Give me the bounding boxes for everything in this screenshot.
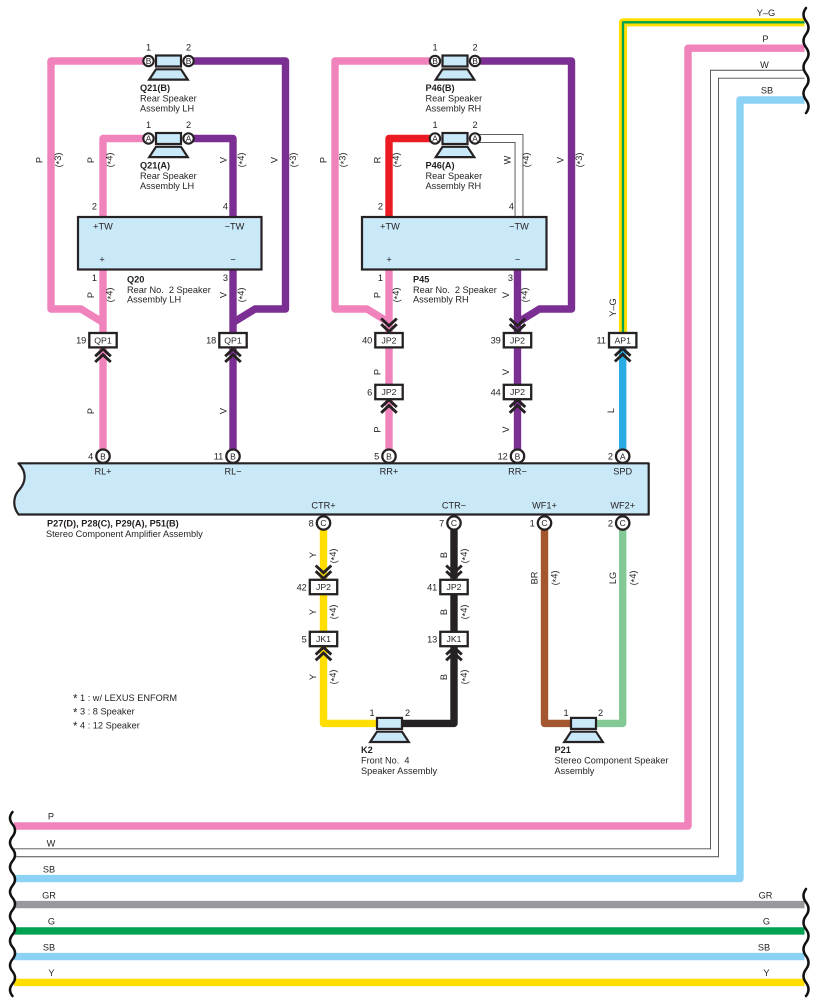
svg-text:Rear Speaker: Rear Speaker (140, 171, 197, 181)
svg-text:P45: P45 (413, 274, 429, 284)
svg-text:44: 44 (491, 387, 501, 397)
svg-text:B: B (472, 56, 478, 66)
svg-text:7: 7 (439, 519, 444, 529)
svg-text:Y: Y (48, 968, 54, 978)
wire L (blue) AP1 11 to amp SPD (619, 347, 626, 452)
terminal 4 (B) amp RL+ (96, 450, 109, 463)
svg-text:(*3): (*3) (53, 153, 65, 168)
wire G (green) bottom run (14, 927, 805, 934)
svg-text:P27(D), P28(C), P29(A), P51(B): P27(D), P28(C), P29(A), P51(B) (47, 519, 179, 529)
tweeter box P45 Rear No.2 Speaker Assembly RH (362, 217, 547, 270)
svg-text:RR+: RR+ (380, 466, 399, 476)
svg-text:QP1: QP1 (224, 335, 242, 345)
svg-text:1: 1 (146, 42, 151, 52)
svg-text:Speaker Assembly: Speaker Assembly (361, 766, 437, 776)
svg-text:P: P (762, 34, 768, 44)
svg-text:Q21(A): Q21(A) (140, 161, 170, 171)
wire Y-G (yellow-green) from top right to AP1 11 (623, 22, 805, 334)
speaker K2 Front No.4 Speaker Assembly (377, 718, 402, 729)
svg-text:Front No. 4: Front No. 4 (361, 756, 410, 766)
svg-text:A: A (620, 451, 626, 461)
svg-text:SB: SB (43, 864, 55, 874)
svg-text:SB: SB (43, 942, 55, 952)
svg-text:WF1+: WF1+ (532, 501, 557, 511)
svg-text:(*4): (*4) (521, 153, 533, 168)
connector 11 AP1 (609, 333, 636, 347)
svg-text:13: 13 (427, 634, 437, 644)
svg-text:Stereo Component Amplifier Ass: Stereo Component Amplifier Assembly (46, 529, 203, 539)
amplifier box P27(D)/P28(C)/P29(A)/P51(B) Stereo Component Amplifier Assembly (14, 463, 648, 514)
svg-text:G: G (763, 917, 770, 927)
svg-text:JP2: JP2 (382, 387, 397, 397)
wire GR (gray) bottom run (14, 901, 805, 908)
break mark top right (804, 8, 809, 113)
svg-text:1: 1 (146, 120, 151, 130)
svg-text:−TW: −TW (509, 222, 529, 232)
svg-text:Assembly RH: Assembly RH (426, 103, 482, 113)
svg-text:18: 18 (206, 336, 216, 346)
svg-text:B: B (439, 609, 449, 615)
svg-text:P46(B): P46(B) (426, 83, 455, 93)
terminal 8 (C) amp CTR+ (317, 516, 330, 529)
wire B (black) amp CTR- to JP2 41 / JK1 13 to K2 pin2 (402, 529, 454, 724)
speaker P46(A) Rear Speaker Assembly RH (443, 133, 468, 144)
svg-text:4: 4 (223, 202, 228, 212)
svg-text:(*4): (*4) (520, 288, 532, 303)
wire V (purple) P45 pin3 to JP2 39/44 to amp RR- (514, 267, 521, 451)
wire P (pink) long run top right to bottom left (14, 48, 805, 826)
speaker P46(B) Rear Speaker Assembly RH (443, 56, 468, 67)
svg-text:JK1: JK1 (316, 634, 331, 644)
svg-text:C: C (320, 518, 326, 528)
svg-text:(*4): (*4) (628, 571, 640, 586)
svg-text:6: 6 (367, 387, 372, 397)
wire LG (light green) amp WF2+ to P21 pin2 (597, 529, 623, 724)
svg-text:1: 1 (432, 120, 437, 130)
speaker Q21(B) Rear Speaker Assembly LH (156, 56, 181, 67)
svg-text:Y: Y (763, 968, 769, 978)
svg-text:+: + (386, 255, 391, 265)
svg-text:Rear No. 2 Speaker: Rear No. 2 Speaker (413, 285, 497, 295)
terminal 11 (B) amp RL- (226, 450, 239, 463)
svg-text:Rear Speaker: Rear Speaker (140, 94, 197, 104)
svg-text:JP2: JP2 (447, 582, 462, 592)
svg-text:Y: Y (308, 609, 318, 615)
svg-text:3: 3 (223, 273, 228, 283)
wire W (white) long run top right to bottom left (14, 74, 805, 853)
wire BR (brown) amp WF1+ to P21 pin1 (545, 529, 571, 724)
svg-text:2: 2 (608, 452, 613, 462)
svg-text:CTR−: CTR− (442, 501, 466, 511)
svg-text:W: W (502, 155, 512, 164)
svg-text:Rear Speaker: Rear Speaker (426, 94, 483, 104)
svg-text:1: 1 (369, 708, 374, 718)
connector 18 QP1 (219, 333, 246, 347)
svg-text:Y: Y (308, 552, 318, 558)
svg-text:JK1: JK1 (447, 634, 462, 644)
svg-text:V: V (501, 426, 511, 433)
svg-text:B: B (100, 451, 106, 461)
speaker Q21(A) Rear Speaker Assembly LH (156, 133, 181, 144)
svg-text:5: 5 (374, 452, 379, 462)
svg-text:V: V (218, 156, 228, 163)
svg-text:AP1: AP1 (614, 335, 631, 345)
svg-text:(*4): (*4) (105, 288, 117, 303)
svg-text:B: B (515, 451, 521, 461)
wire W (white) P46(A) pin2 to P45 pin4 (478, 139, 519, 221)
terminal 5 (B) amp RR+ (382, 450, 395, 463)
svg-text:Q20: Q20 (127, 274, 144, 284)
terminal 1 (C) amp WF1+ (538, 516, 551, 529)
terminal 2 (A) amp SPD (616, 450, 629, 463)
break mark bottom left (10, 812, 15, 996)
svg-text:(*4): (*4) (391, 153, 403, 168)
wire P (pink) Q21(A) pin1 / Q20 pin2 / pin1 to QP1 19 to amp RL+ (103, 139, 145, 452)
wire SB (sky blue) bottom run (14, 953, 805, 960)
svg-text:A: A (472, 134, 478, 144)
svg-text:4: 4 (88, 452, 93, 462)
svg-text:Assembly LH: Assembly LH (140, 181, 194, 191)
svg-text:P: P (372, 292, 382, 298)
terminal 2 (C) amp WF2+ (616, 516, 629, 529)
svg-text:A: A (186, 134, 192, 144)
svg-text:P: P (86, 292, 96, 298)
connector 42 JP2 (310, 580, 337, 594)
svg-text:19: 19 (76, 336, 86, 346)
svg-text:WF2+: WF2+ (610, 501, 635, 511)
svg-text:Assembly RH: Assembly RH (413, 295, 469, 305)
svg-text:4: 4 (509, 202, 514, 212)
svg-text:8: 8 (309, 519, 314, 529)
svg-text:B: B (432, 56, 438, 66)
connector 5 JK1 (310, 632, 337, 646)
svg-text:−: − (515, 255, 520, 265)
svg-text:V: V (501, 368, 511, 375)
svg-text:(*4): (*4) (105, 153, 117, 168)
svg-text:G: G (48, 917, 55, 927)
svg-text:Y: Y (308, 674, 318, 680)
svg-text:42: 42 (297, 582, 307, 592)
svg-text:A: A (432, 134, 438, 144)
svg-text:(*4): (*4) (328, 549, 340, 564)
wire Y (yellow) bottom run (14, 979, 805, 986)
svg-text:V: V (218, 407, 228, 414)
svg-text:2: 2 (608, 519, 613, 529)
wire V (purple) Q21(B) pin2 to junction, *3 (192, 61, 286, 323)
svg-text:(*4): (*4) (236, 288, 248, 303)
svg-text:P46(A): P46(A) (426, 161, 455, 171)
svg-text:2: 2 (472, 42, 477, 52)
svg-text:2: 2 (598, 708, 603, 718)
svg-text:2: 2 (186, 42, 191, 52)
svg-text:A: A (146, 134, 152, 144)
svg-text:Assembly LH: Assembly LH (127, 295, 181, 305)
svg-text:(*3): (*3) (288, 153, 300, 168)
svg-text:(*3): (*3) (338, 153, 350, 168)
svg-text:(*4): (*4) (550, 571, 562, 586)
connector 19 QP1 (89, 333, 116, 347)
svg-text:SB: SB (758, 942, 770, 952)
svg-text:GR: GR (759, 890, 773, 900)
svg-text:W: W (760, 60, 769, 70)
svg-text:K2: K2 (361, 745, 373, 755)
svg-text:1: 1 (563, 708, 568, 718)
svg-text:B: B (439, 674, 449, 680)
svg-text:1: 1 (432, 42, 437, 52)
svg-text:P: P (372, 426, 382, 432)
svg-text:B: B (146, 56, 152, 66)
connector 39 JP2 (504, 333, 531, 347)
svg-text:+: + (99, 255, 104, 265)
svg-text:V: V (218, 291, 228, 298)
connector 13 JK1 (440, 632, 467, 646)
svg-text:JP2: JP2 (382, 335, 397, 345)
svg-text:C: C (541, 518, 547, 528)
tweeter box Q20 Rear No.2 Speaker Assembly LH (78, 217, 262, 270)
svg-text:Assembly RH: Assembly RH (426, 181, 482, 191)
svg-text:BR: BR (529, 571, 539, 584)
svg-text:(*4): (*4) (459, 670, 471, 685)
svg-text:12: 12 (498, 452, 508, 462)
svg-text:(*3): (*3) (574, 153, 586, 168)
svg-text:P: P (86, 157, 96, 163)
svg-text:B: B (230, 451, 236, 461)
svg-text:Rear No. 2 Speaker: Rear No. 2 Speaker (127, 285, 211, 295)
svg-text:11: 11 (214, 452, 224, 462)
svg-text:(*4): (*4) (391, 288, 403, 303)
svg-text:C: C (620, 518, 626, 528)
wire Y (yellow) amp CTR+ to JP2 42 / JK1 5 to K2 pin1 (324, 529, 378, 724)
svg-text:−: − (230, 255, 235, 265)
svg-text:RL+: RL+ (94, 466, 111, 476)
wire P (pink) P46(B) pin1 to junction, *3 (335, 61, 432, 323)
svg-text:41: 41 (427, 582, 437, 592)
wire R (red) P46(A) pin1 to P45 pin2 (389, 139, 432, 221)
svg-text:P: P (86, 408, 96, 414)
connector 41 JP2 (440, 580, 467, 594)
svg-text:V: V (269, 156, 279, 163)
svg-text:JP2: JP2 (510, 335, 525, 345)
svg-text:SB: SB (761, 86, 773, 96)
svg-text:(*4): (*4) (459, 549, 471, 564)
svg-text:2: 2 (92, 202, 97, 212)
terminal 7 (C) amp CTR- (447, 516, 460, 529)
svg-text:L: L (606, 408, 616, 413)
svg-text:RR−: RR− (508, 466, 527, 476)
svg-text:P21: P21 (555, 745, 571, 755)
svg-text:1: 1 (92, 273, 97, 283)
svg-text:B: B (186, 56, 192, 66)
svg-text:Q21(B): Q21(B) (140, 83, 170, 93)
connector 40 JP2 (375, 333, 402, 347)
svg-text:Assembly: Assembly (555, 766, 595, 776)
svg-text:CTR+: CTR+ (311, 501, 335, 511)
svg-text:JP2: JP2 (316, 582, 331, 592)
svg-text:R: R (372, 156, 382, 163)
svg-text:JP2: JP2 (510, 387, 525, 397)
svg-text:Stereo Component Speaker: Stereo Component Speaker (555, 756, 669, 766)
terminal 12 (B) amp RR- (511, 450, 524, 463)
break mark bottom right (804, 889, 809, 996)
wire V (purple) P46(B) pin2 to junction, *3 (478, 61, 572, 323)
svg-text:RL−: RL− (224, 466, 241, 476)
svg-text:P: P (372, 369, 382, 375)
svg-text:2: 2 (378, 202, 383, 212)
svg-text:39: 39 (491, 336, 501, 346)
svg-text:+TW: +TW (93, 222, 113, 232)
svg-text:Rear Speaker: Rear Speaker (426, 171, 483, 181)
svg-text:(*4): (*4) (328, 670, 340, 685)
svg-text:LG: LG (608, 572, 618, 584)
connector 6 JP2 (375, 385, 402, 399)
svg-text:B: B (439, 552, 449, 558)
svg-text:40: 40 (362, 336, 372, 346)
svg-text:W: W (47, 839, 56, 849)
svg-text:QP1: QP1 (94, 335, 112, 345)
svg-text:5: 5 (302, 634, 307, 644)
svg-text:Assembly LH: Assembly LH (140, 103, 194, 113)
wire P (pink) Q21(B) pin1 to junction, *3 (51, 61, 145, 323)
svg-text:2: 2 (405, 708, 410, 718)
svg-text:11: 11 (596, 336, 606, 346)
svg-text:+TW: +TW (380, 222, 400, 232)
wire SB (sky blue) long run top right to bottom left (14, 100, 805, 879)
svg-text:V: V (501, 291, 511, 298)
svg-text:1: 1 (378, 273, 383, 283)
speaker P21 Stereo Component Speaker Assembly (571, 718, 596, 729)
svg-text:Y–G: Y–G (608, 298, 618, 316)
svg-text:Y–G: Y–G (757, 8, 775, 18)
svg-text:(*4): (*4) (236, 153, 248, 168)
svg-text:B: B (386, 451, 392, 461)
svg-text:P: P (48, 812, 54, 822)
svg-text:−TW: −TW (225, 222, 245, 232)
wire P (pink) P45 pin1 to JP2 40/6 to amp RR+ (385, 267, 392, 451)
svg-text:(*4): (*4) (328, 605, 340, 620)
wire V (purple) Q21(A) pin2 / Q20 pin4 / pin3 to QP1 18 to amp RL- (192, 139, 233, 452)
svg-text:GR: GR (42, 890, 56, 900)
svg-text:2: 2 (186, 120, 191, 130)
svg-text:C: C (451, 518, 457, 528)
svg-text:2: 2 (472, 120, 477, 130)
svg-text:P: P (318, 157, 328, 163)
svg-text:P: P (34, 157, 44, 163)
svg-text:(*4): (*4) (459, 605, 471, 620)
svg-text:3: 3 (508, 273, 513, 283)
svg-text:1: 1 (530, 519, 535, 529)
svg-text:SPD: SPD (613, 466, 632, 476)
connector 44 JP2 (504, 385, 531, 399)
svg-text:V: V (555, 156, 565, 163)
